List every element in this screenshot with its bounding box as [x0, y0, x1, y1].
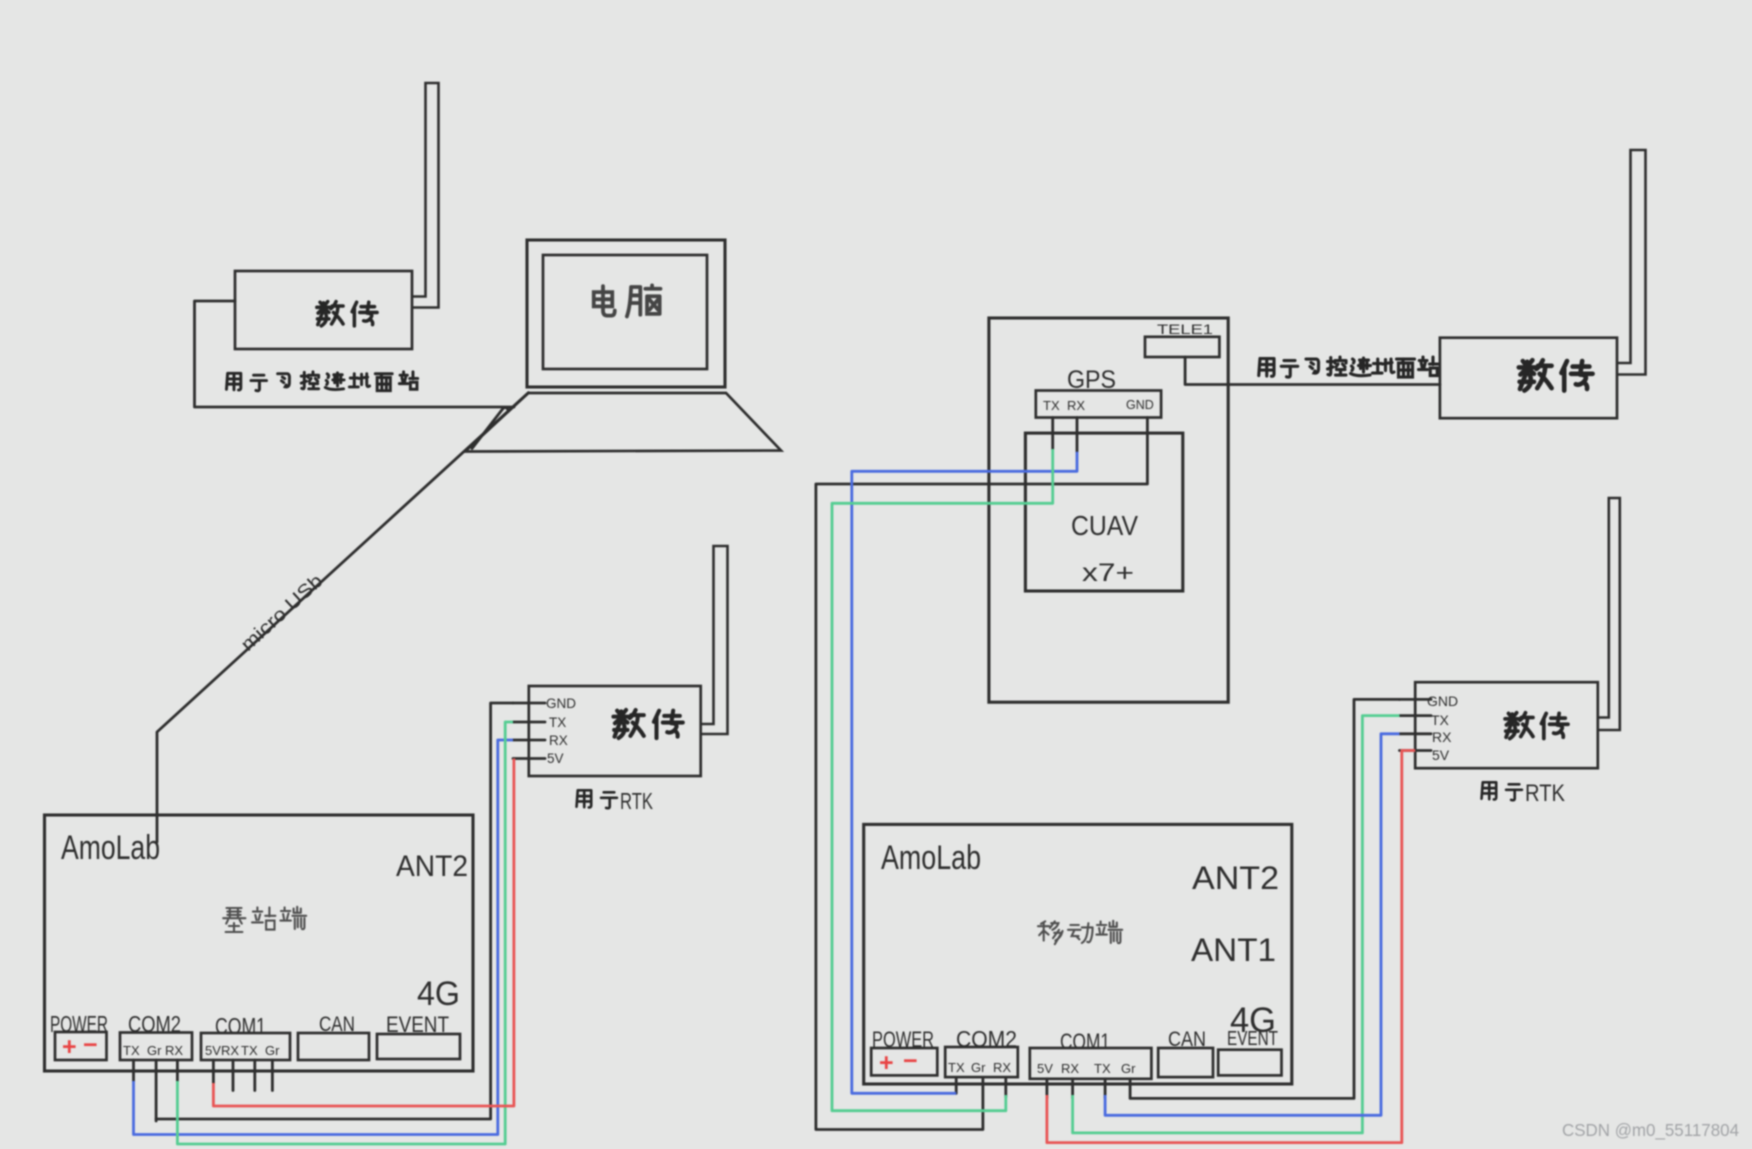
svg-text:TX: TX: [948, 1060, 965, 1075]
svg-text:CUAV: CUAV: [1071, 510, 1138, 541]
svg-text:GND: GND: [1126, 398, 1154, 412]
svg-text:ANT1: ANT1: [1191, 932, 1276, 968]
svg-text:4G: 4G: [417, 975, 460, 1013]
svg-text:+: +: [879, 1049, 894, 1077]
svg-text:COM2: COM2: [956, 1026, 1017, 1052]
svg-text:5V: 5V: [547, 751, 564, 766]
svg-text:−: −: [903, 1047, 918, 1075]
svg-text:TX: TX: [1431, 712, 1450, 728]
svg-text:COM1: COM1: [215, 1013, 266, 1039]
svg-text:RX: RX: [1432, 729, 1452, 745]
svg-text:GND: GND: [1427, 693, 1458, 709]
svg-text:ANT2: ANT2: [396, 850, 468, 883]
svg-text:TX: TX: [123, 1043, 140, 1058]
svg-text:Gr: Gr: [971, 1060, 986, 1075]
svg-text:CAN: CAN: [1168, 1028, 1206, 1051]
svg-text:COM2: COM2: [128, 1011, 181, 1037]
svg-text:5V: 5V: [1432, 747, 1450, 763]
svg-text:ANT2: ANT2: [1192, 860, 1279, 896]
svg-text:RTK: RTK: [620, 788, 653, 814]
svg-text:COM1: COM1: [1060, 1029, 1110, 1054]
svg-text:RX: RX: [165, 1043, 183, 1058]
svg-text:RX: RX: [1067, 398, 1085, 413]
svg-text:x7+: x7+: [1082, 559, 1134, 587]
svg-text:Gr: Gr: [1121, 1061, 1136, 1076]
svg-text:5V: 5V: [205, 1043, 221, 1058]
svg-text:Gr: Gr: [265, 1043, 280, 1058]
svg-text:AmoLab: AmoLab: [881, 839, 981, 877]
svg-text:TX: TX: [1094, 1061, 1111, 1076]
svg-text:AmoLab: AmoLab: [61, 829, 160, 867]
svg-text:+: +: [62, 1033, 77, 1061]
svg-text:TX: TX: [549, 715, 566, 730]
svg-text:RX: RX: [221, 1043, 239, 1058]
svg-text:RTK: RTK: [1525, 780, 1565, 807]
svg-text:RX: RX: [1061, 1061, 1079, 1076]
svg-text:EVENT: EVENT: [1227, 1028, 1278, 1050]
svg-text:TELE1: TELE1: [1157, 322, 1213, 337]
svg-text:Gr: Gr: [147, 1043, 162, 1058]
svg-text:CAN: CAN: [319, 1013, 355, 1036]
svg-text:5V: 5V: [1037, 1061, 1053, 1076]
svg-text:POWER: POWER: [50, 1011, 108, 1037]
svg-text:GPS: GPS: [1067, 366, 1116, 394]
svg-text:micro USb: micro USb: [237, 571, 327, 656]
svg-text:RX: RX: [549, 733, 568, 748]
svg-text:CSDN @m0_55117804: CSDN @m0_55117804: [1562, 1120, 1739, 1141]
svg-text:TX: TX: [1043, 398, 1060, 413]
svg-text:GND: GND: [546, 696, 576, 711]
svg-text:RX: RX: [993, 1060, 1011, 1075]
svg-text:TX: TX: [241, 1043, 258, 1058]
svg-text:−: −: [83, 1031, 98, 1059]
svg-text:EVENT: EVENT: [386, 1012, 449, 1037]
